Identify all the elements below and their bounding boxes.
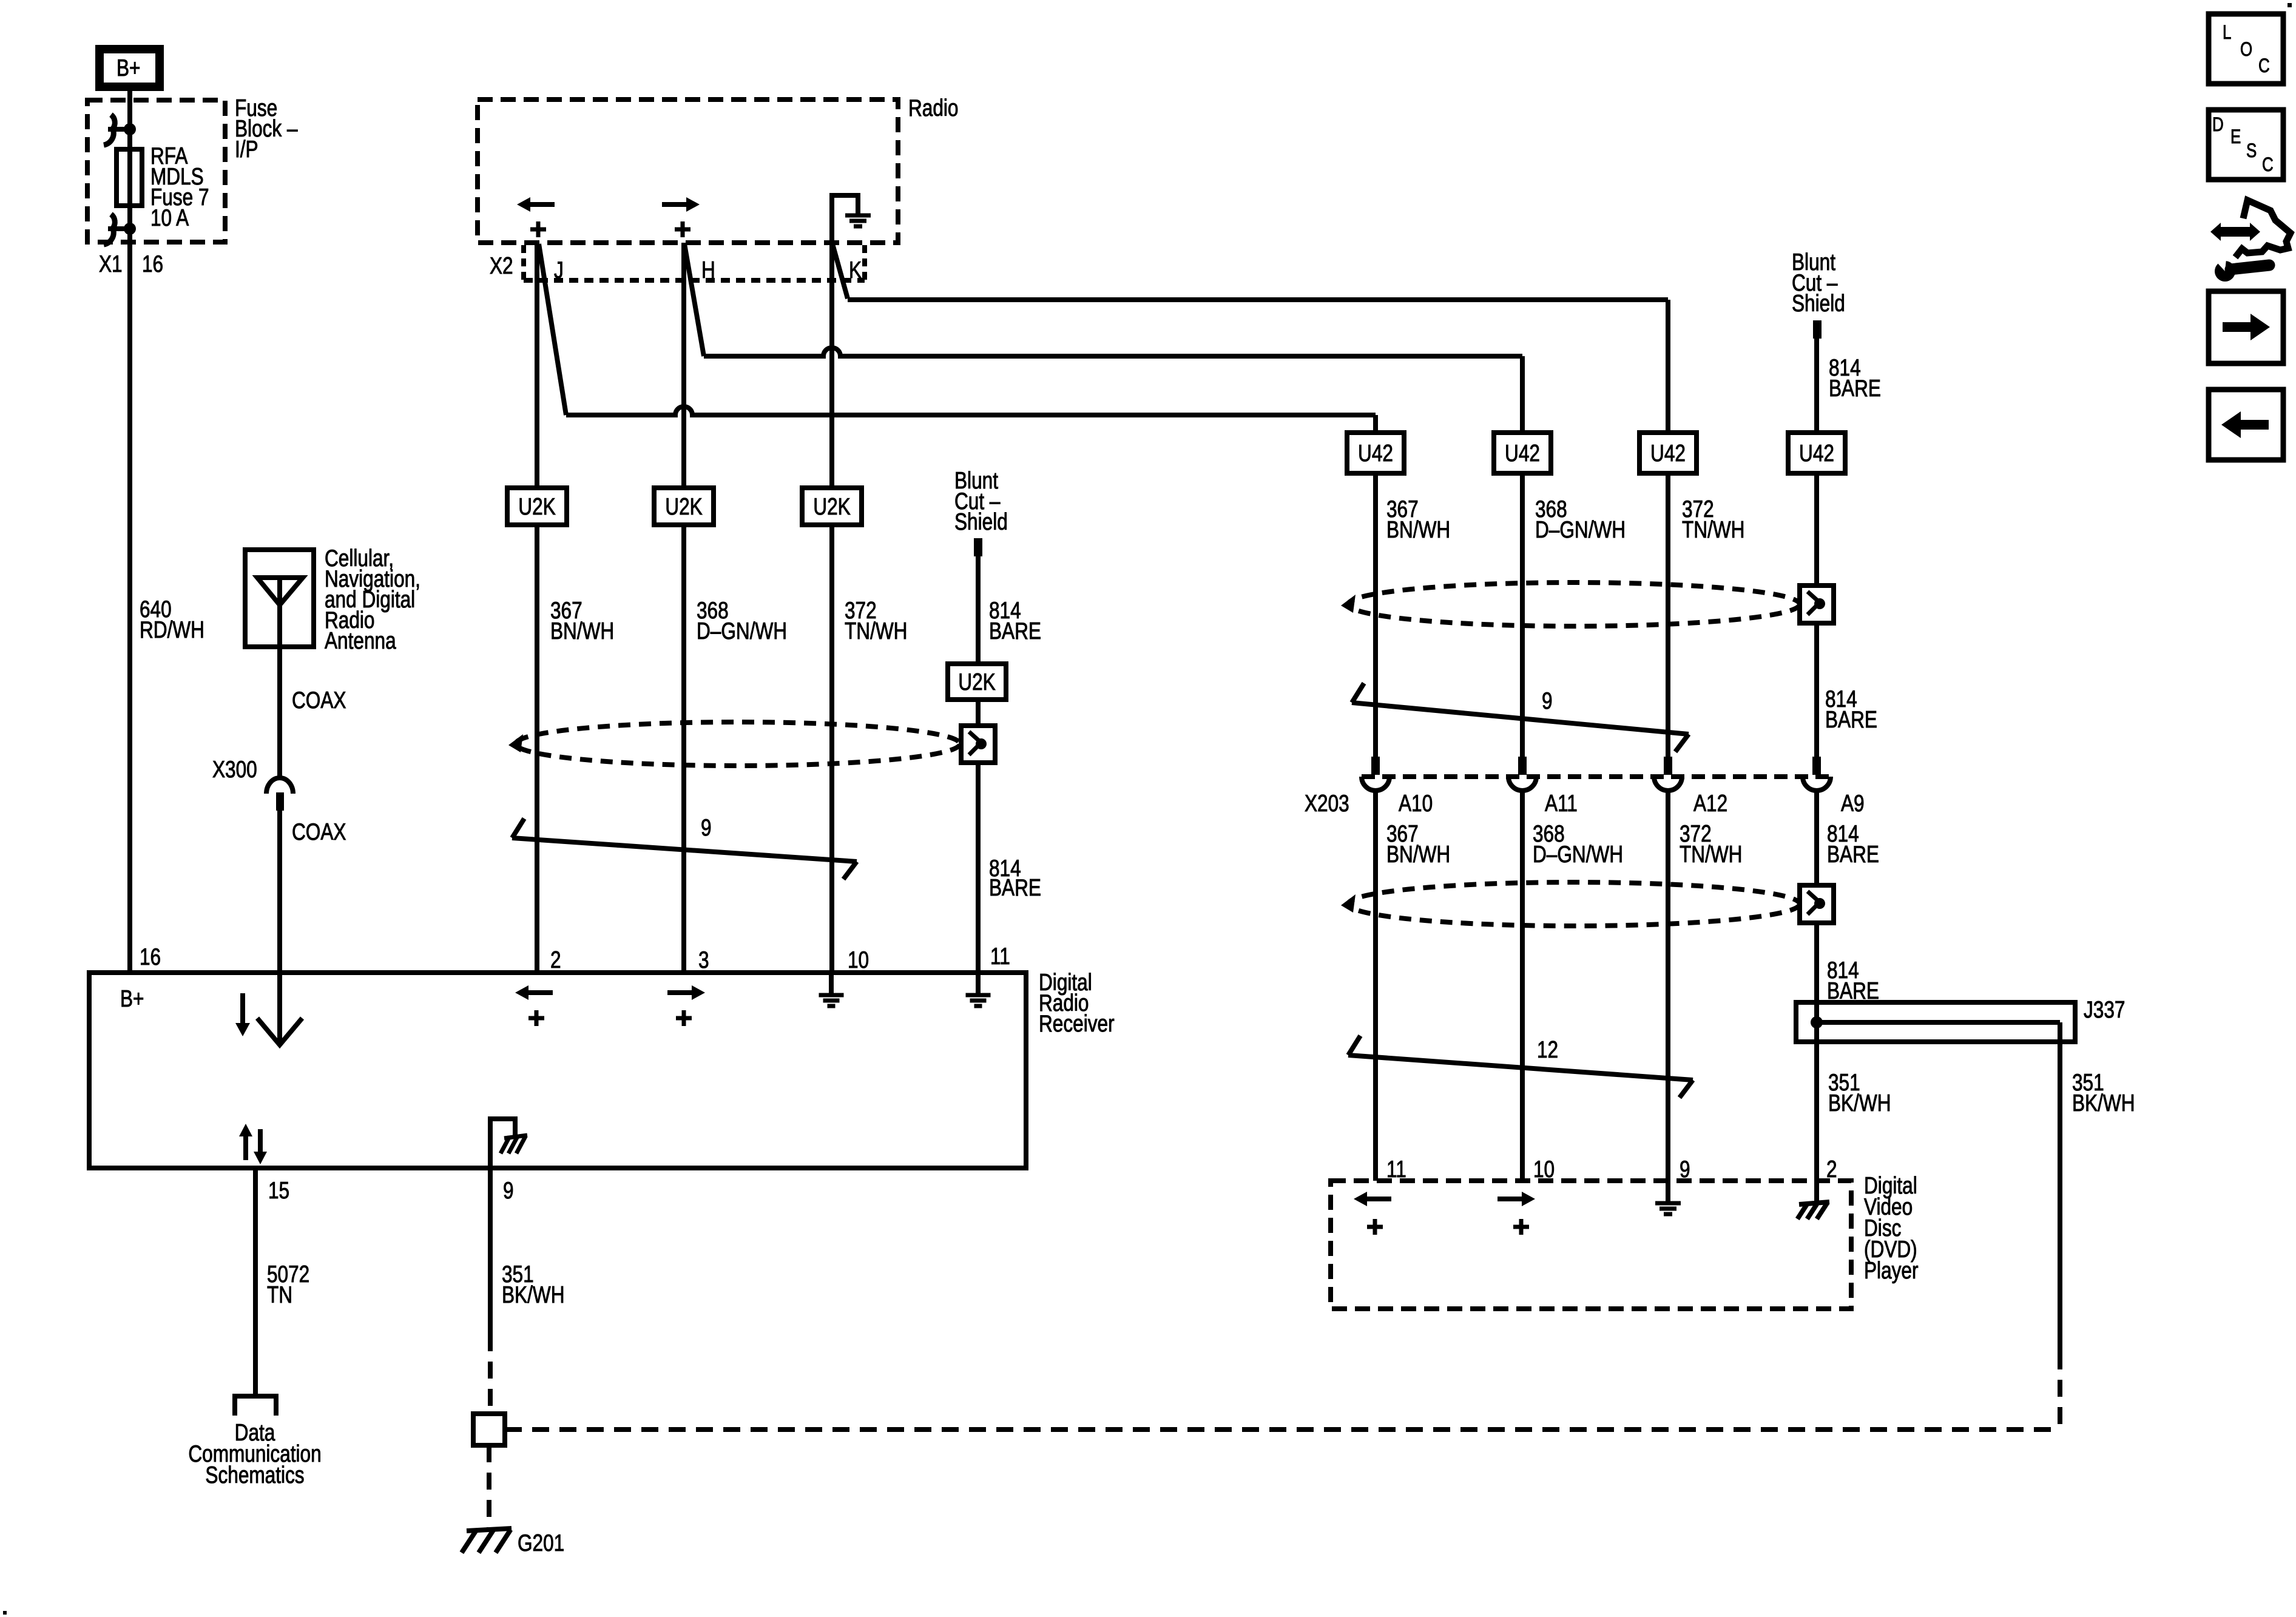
- svg-text:Player: Player: [1864, 1257, 1919, 1284]
- svg-text:B+: B+: [116, 55, 140, 81]
- svg-text:BARE: BARE: [989, 874, 1041, 901]
- svg-text:9: 9: [503, 1177, 514, 1204]
- svg-text:BARE: BARE: [1827, 841, 1879, 868]
- svg-text:U2K: U2K: [958, 669, 996, 695]
- svg-text:16: 16: [142, 251, 163, 277]
- svg-text:J: J: [554, 257, 564, 283]
- svg-text:BN/WH: BN/WH: [1386, 516, 1450, 543]
- svg-text:Schematics: Schematics: [205, 1462, 304, 1488]
- svg-text:J337: J337: [2084, 996, 2125, 1023]
- svg-text:U42: U42: [1650, 440, 1686, 467]
- svg-text:B+: B+: [120, 985, 144, 1012]
- svg-text:A12: A12: [1693, 790, 1727, 817]
- svg-text:X1: X1: [99, 251, 123, 277]
- svg-text:9: 9: [1542, 687, 1553, 714]
- svg-text:O: O: [2240, 39, 2252, 61]
- svg-text:15: 15: [268, 1177, 289, 1204]
- svg-text:D–GN/WH: D–GN/WH: [1533, 841, 1623, 868]
- svg-text:G201: G201: [518, 1530, 564, 1556]
- svg-text:U2K: U2K: [665, 493, 703, 520]
- svg-text:Antenna: Antenna: [325, 627, 396, 654]
- svg-text:Shield: Shield: [1792, 290, 1845, 317]
- svg-text:11: 11: [990, 943, 1010, 970]
- svg-text:RD/WH: RD/WH: [140, 616, 204, 643]
- svg-text:A9: A9: [1841, 790, 1865, 817]
- svg-text:BARE: BARE: [1829, 375, 1881, 402]
- svg-text:TN: TN: [267, 1281, 292, 1308]
- svg-text:TN/WH: TN/WH: [845, 618, 907, 644]
- svg-text:A11: A11: [1545, 790, 1578, 817]
- svg-text:U42: U42: [1358, 440, 1393, 467]
- svg-text:BARE: BARE: [1825, 706, 1877, 733]
- svg-text:U2K: U2K: [518, 493, 556, 520]
- svg-text:3: 3: [698, 947, 709, 973]
- svg-text:9: 9: [701, 814, 712, 841]
- svg-text:BN/WH: BN/WH: [550, 618, 614, 644]
- svg-text:BN/WH: BN/WH: [1386, 841, 1450, 868]
- svg-text:COAX: COAX: [292, 819, 346, 845]
- svg-text:2: 2: [550, 947, 561, 973]
- svg-text:H: H: [701, 257, 715, 283]
- svg-text:BK/WH: BK/WH: [2072, 1090, 2135, 1116]
- svg-text:TN/WH: TN/WH: [1682, 516, 1744, 543]
- svg-text:E: E: [2230, 127, 2241, 148]
- svg-text:D–GN/WH: D–GN/WH: [697, 618, 787, 644]
- svg-text:C: C: [2262, 155, 2274, 176]
- svg-text:Receiver: Receiver: [1039, 1010, 1115, 1037]
- svg-text:D–GN/WH: D–GN/WH: [1535, 516, 1626, 543]
- svg-text:A10: A10: [1399, 790, 1433, 817]
- svg-text:TN/WH: TN/WH: [1680, 841, 1742, 868]
- svg-text:12: 12: [1537, 1036, 1558, 1063]
- svg-text:X300: X300: [212, 756, 257, 783]
- svg-text:BARE: BARE: [989, 618, 1041, 644]
- svg-text:10: 10: [848, 947, 869, 973]
- svg-text:U42: U42: [1505, 440, 1540, 467]
- svg-text:Radio: Radio: [908, 95, 959, 121]
- svg-text:COAX: COAX: [292, 687, 346, 714]
- svg-text:U2K: U2K: [813, 493, 851, 520]
- svg-text:D: D: [2212, 115, 2224, 136]
- svg-text:BK/WH: BK/WH: [1828, 1090, 1891, 1116]
- svg-text:L: L: [2223, 22, 2231, 44]
- svg-text:I/P: I/P: [235, 136, 258, 163]
- svg-text:K: K: [849, 257, 862, 283]
- svg-text:S: S: [2246, 141, 2257, 162]
- svg-text:U42: U42: [1799, 440, 1834, 467]
- svg-text:10 A: 10 A: [150, 204, 189, 231]
- svg-text:16: 16: [140, 944, 161, 970]
- svg-text:BK/WH: BK/WH: [502, 1281, 564, 1308]
- svg-text:X2: X2: [490, 252, 513, 279]
- svg-text:X203: X203: [1305, 790, 1349, 817]
- svg-text:Shield: Shield: [954, 508, 1008, 535]
- svg-text:C: C: [2258, 56, 2270, 77]
